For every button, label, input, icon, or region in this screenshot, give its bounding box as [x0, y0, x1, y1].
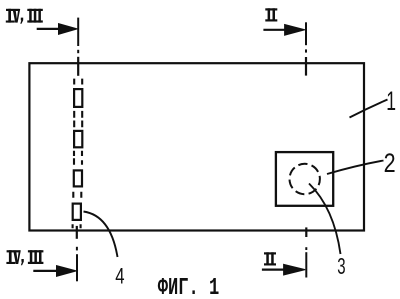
IV: bottom bar: [6, 21, 15, 23]
section line II, bottom tick crossing edge: [305, 227, 307, 237]
svg-text:1: 1: [386, 85, 396, 116]
III: bottom bar: [27, 20, 43, 22]
IV: I stem: [8, 9, 11, 23]
boss square (part 2): [276, 152, 333, 206]
section line IV-III, bottom tick crossing edge: [76, 226, 78, 239]
section line II, bottom dash: [305, 252, 307, 277]
dash pairs between rect 1 and 2: [74, 111, 82, 127]
svg-text:2: 2: [384, 149, 396, 179]
svg-text:3: 3: [337, 254, 345, 280]
IV: V strokes: [13, 9, 21, 23]
comma: [20, 18, 23, 24]
dash pair between rect 3 and 4: [73, 192, 81, 198]
svg-text:ФИГ. 1: ФИГ. 1: [158, 275, 220, 299]
hole circle (part 3), dashed: [290, 164, 320, 194]
leader to label 4: [84, 212, 118, 258]
label II (top right): [265, 8, 277, 21]
label II (bottom right): [264, 252, 276, 265]
label IV, III (top left): [6, 9, 43, 24]
arrow IV-III bottom: [33, 266, 76, 277]
III: top bar: [27, 9, 43, 11]
arrow II top: [263, 25, 305, 36]
section line IV-III, top tick crossing edge: [77, 57, 79, 76]
section line II, top tick crossing edge: [305, 57, 307, 76]
III: stems: [29, 9, 32, 23]
slot rect 2: [74, 131, 82, 147]
section line IV-III, top dash: [77, 18, 79, 46]
dash pair below rect 4: [73, 224, 81, 228]
plate outline (part 1): [29, 63, 364, 230]
IV: top bar: [6, 9, 20, 11]
slot rect 4: [73, 204, 81, 220]
label IV, III (bottom left): [6, 250, 43, 265]
leader to label 1: [350, 100, 388, 118]
slot rect 1: [74, 89, 82, 107]
section line IV-III, top dot: [77, 50, 79, 53]
section line II, bottom dot: [305, 247, 307, 250]
arrow IV-III top: [37, 24, 78, 35]
svg-text:4: 4: [115, 265, 124, 290]
section line II, top dot: [305, 49, 307, 52]
section line IV-III, bottom dash: [76, 254, 78, 281]
section line II, top dash: [305, 22, 307, 45]
slot rect 3: [74, 170, 82, 186]
slot column (part 4): dash pair above rect 1: [74, 79, 82, 85]
dash pairs between rect 2 and 3: [74, 151, 82, 165]
leader to label 3: [309, 184, 341, 255]
section line IV-III, bottom dot: [76, 247, 78, 251]
leader to label 2: [327, 161, 384, 175]
arrow II bottom: [262, 264, 305, 275]
